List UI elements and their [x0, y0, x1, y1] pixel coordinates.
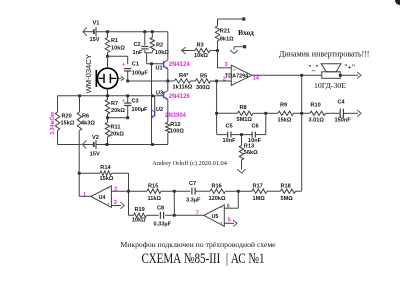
op-amp U5 — [204, 205, 224, 227]
wire r15-c7 — [161, 190, 190, 192]
svg-text:C3: C3 — [132, 99, 139, 105]
resistor R15 11k — [147, 183, 162, 202]
svg-text:Andrey Orloff (c) 2020.01.04: Andrey Orloff (c) 2020.01.04 — [152, 160, 227, 167]
svg-text:TDA7294: TDA7294 — [225, 73, 248, 79]
svg-text:R4*: R4* — [179, 73, 189, 79]
wire r10-c4 — [326, 112, 341, 114]
label 3.34mOm — [50, 112, 56, 135]
svg-text:R17: R17 — [253, 184, 263, 190]
svg-text:"+": "+" — [344, 65, 356, 72]
svg-text:1nF: 1nF — [133, 50, 144, 56]
svg-text:20kΩ: 20kΩ — [110, 132, 124, 138]
wire R14 down — [128, 173, 130, 191]
capacitor C3 100uF — [122, 96, 148, 118]
svg-text:150nF: 150nF — [335, 117, 352, 123]
resistor R10 3.01 — [309, 103, 326, 124]
svg-text:+: + — [220, 221, 223, 226]
svg-text:5M1Ω: 5M1Ω — [237, 117, 253, 123]
resistor R5 300 — [196, 74, 211, 92]
wire output — [252, 74, 322, 76]
node R6 top — [78, 94, 81, 97]
capacitor C2 1nF — [133, 32, 149, 56]
resistor R14 15k — [79, 165, 128, 182]
svg-text:2: 2 — [223, 77, 226, 83]
svg-text:100Ω: 100Ω — [170, 128, 184, 134]
node R2 top — [151, 30, 154, 33]
svg-text:C5: C5 — [226, 123, 233, 129]
svg-text:3.34мОм: 3.34мОм — [50, 112, 56, 135]
svg-text:R7: R7 — [111, 101, 118, 107]
svg-text:U3: U3 — [156, 90, 163, 96]
ground input — [230, 45, 246, 54]
svg-text:15kΩ: 15kΩ — [61, 121, 75, 127]
pin 2 label U4 — [114, 187, 117, 193]
svg-text:6: 6 — [227, 204, 230, 210]
wire r18 corner — [296, 190, 302, 192]
svg-text:R13: R13 — [244, 143, 254, 149]
wire c7-r16 — [195, 190, 210, 192]
wire r17-r18 — [267, 190, 281, 192]
svg-text:WM-034CY: WM-034CY — [84, 54, 93, 93]
caption schema — [142, 251, 265, 267]
node C5-C6 — [240, 133, 243, 136]
svg-text:120kΩ: 120kΩ — [209, 196, 226, 202]
pin 6 label — [227, 204, 230, 210]
node speaker right — [339, 74, 342, 77]
svg-text:10kΩ: 10kΩ — [132, 218, 146, 224]
node R11 bottom — [106, 143, 109, 146]
label dynamik — [279, 49, 369, 58]
caption mic — [120, 240, 276, 249]
svg-text:R19: R19 — [135, 207, 145, 213]
svg-text:1: 1 — [83, 192, 86, 198]
node C2 top — [143, 30, 146, 33]
capacitor C7 3.3uF — [186, 181, 201, 204]
svg-text:100µF: 100µF — [132, 107, 149, 113]
svg-text:R2: R2 — [156, 43, 163, 49]
wire U5 pin6 — [224, 191, 238, 208]
svg-text:3.3µF: 3.3µF — [186, 198, 201, 204]
node rail bottom — [151, 143, 154, 146]
wire bottom rail left — [58, 144, 82, 146]
wire U3 base stub — [154, 96, 156, 110]
wire mid line y81 — [128, 80, 232, 82]
node r15 c8 — [173, 190, 176, 193]
wire r9-r10 — [294, 112, 311, 114]
label 10GD-30E — [314, 81, 346, 90]
svg-text:+: + — [233, 68, 236, 73]
node loop left — [215, 112, 218, 115]
svg-text:300Ω: 300Ω — [196, 85, 210, 91]
label author — [152, 160, 227, 167]
node speaker left — [300, 74, 303, 77]
wire U3-R12 — [167, 99, 169, 122]
svg-text:C8: C8 — [157, 206, 164, 212]
capacitor C5 10nF — [223, 123, 237, 143]
wire top rail — [96, 31, 168, 33]
capacitor C4 150nF — [335, 100, 352, 124]
svg-text:10kΩ: 10kΩ — [111, 46, 125, 52]
label plus — [344, 65, 356, 72]
wire to pin3 — [218, 51, 232, 68]
label WM-034CY — [84, 54, 93, 93]
wire R6 down rail — [78, 131, 80, 197]
svg-text:15kΩ: 15kΩ — [278, 117, 292, 123]
wire to U1 base — [147, 53, 164, 64]
svg-text:Вход: Вход — [238, 28, 254, 37]
pin 1 label — [83, 192, 86, 198]
resistor R3 10k — [182, 43, 218, 60]
svg-text:20kΩ: 20kΩ — [111, 108, 125, 114]
svg-text:СХЕМА №85-III | АС №1: СХЕМА №85-III | АС №1 — [142, 251, 265, 267]
speaker 10GD-30E — [321, 64, 341, 79]
microphone WM-034CY — [96, 68, 118, 89]
svg-text:R16: R16 — [212, 183, 222, 189]
node rail cross — [151, 94, 154, 97]
resistor R11 20k — [105, 118, 124, 145]
wire r8 row — [217, 112, 266, 114]
svg-text:R8: R8 — [240, 105, 247, 111]
wire c4 out — [343, 110, 361, 116]
svg-text:2N4126: 2N4126 — [169, 94, 191, 100]
mic output arrow — [118, 76, 124, 81]
node pin2 U4 — [127, 190, 130, 193]
battery V2 15V — [83, 135, 101, 157]
resistor R21 9k1 — [215, 19, 234, 51]
svg-text:0.33µF: 0.33µF — [154, 222, 172, 228]
node V1-R1 — [106, 30, 109, 33]
svg-text:14: 14 — [253, 75, 260, 81]
wire r8row-r9 — [266, 112, 278, 114]
resistor R7 20k — [105, 96, 125, 118]
node R21-R3 — [216, 49, 219, 52]
op-amp TDA7294 — [225, 65, 252, 85]
capacitor C8 0.33uF — [154, 206, 172, 228]
resistor R13 56k — [239, 135, 258, 170]
svg-text:100µF: 100µF — [132, 71, 149, 77]
svg-text:3: 3 — [225, 62, 228, 68]
svg-text:+: + — [122, 62, 125, 68]
wire c8 column — [128, 191, 130, 215]
transistor U1 2N4124 — [156, 60, 191, 72]
svg-text:10kΩ: 10kΩ — [194, 53, 208, 59]
svg-text:R9: R9 — [280, 103, 287, 109]
svg-text:1k116Ω: 1k116Ω — [173, 85, 193, 91]
resistor R12 100 — [166, 122, 185, 144]
svg-text:U4: U4 — [99, 195, 106, 201]
resistor R1 10k — [105, 32, 125, 57]
node inv input — [215, 80, 218, 83]
capacitor C6 10nF — [248, 123, 262, 143]
resistor R17 1M — [252, 184, 267, 202]
svg-text:R11: R11 — [111, 125, 121, 131]
wire mic bottom — [107, 89, 109, 96]
svg-text:R12: R12 — [170, 122, 180, 128]
svg-text:15kΩ: 15kΩ — [100, 176, 114, 182]
svg-text:"_": "_" — [308, 65, 319, 72]
wire U4 pin3 arrow — [111, 202, 124, 208]
svg-text:C4: C4 — [338, 100, 346, 106]
wire collector rail top — [167, 32, 169, 61]
label minus — [308, 65, 319, 72]
resistor R9 15k — [278, 103, 294, 124]
wire U1-U3 — [167, 69, 169, 91]
pin 5 label — [228, 218, 231, 224]
svg-text:+: + — [122, 98, 125, 104]
svg-text:−: − — [107, 187, 110, 192]
svg-text:4k3Ω: 4k3Ω — [81, 121, 95, 127]
node mic bottom — [106, 94, 109, 97]
label Vhod — [238, 28, 254, 37]
wire output column — [301, 75, 303, 191]
wire R7-C3 bottom — [108, 117, 128, 119]
svg-text:R1: R1 — [111, 38, 118, 44]
pin 3 label — [225, 62, 228, 68]
wire C2-R2 bottom — [145, 52, 153, 54]
resistor R8 5M1 — [237, 105, 253, 123]
wire R1-C1 — [108, 56, 128, 64]
svg-text:R18: R18 — [281, 184, 291, 190]
wire U4 out — [79, 195, 91, 197]
svg-text:2N4124: 2N4124 — [169, 62, 191, 68]
node r15 col bottom — [173, 214, 176, 217]
battery V1 15V — [83, 20, 100, 43]
svg-text:10nF: 10nF — [223, 138, 237, 144]
node fb — [237, 190, 240, 193]
wire r16-r17 — [226, 190, 253, 192]
svg-text:10ГД-30Е: 10ГД-30Е — [314, 81, 346, 90]
svg-text:V1: V1 — [93, 20, 100, 26]
resistor R18 5M — [281, 184, 296, 202]
svg-text:C1: C1 — [132, 62, 139, 68]
svg-text:15V: 15V — [90, 37, 100, 43]
node C1 bottom — [126, 80, 129, 83]
svg-text:R21: R21 — [220, 29, 230, 35]
svg-text:U1: U1 — [156, 66, 163, 72]
wire speaker out — [340, 72, 361, 78]
node R8-R9 — [264, 112, 267, 115]
svg-text:R10: R10 — [311, 103, 321, 109]
node out column — [300, 112, 303, 115]
svg-text:V2: V2 — [92, 135, 99, 141]
svg-text:3.01Ω: 3.01Ω — [309, 117, 325, 123]
resistor R6 4k3 — [77, 96, 95, 131]
svg-text:C6: C6 — [252, 123, 259, 129]
transistor U3 2N4126 — [156, 90, 190, 100]
pin input signal — [242, 17, 245, 20]
wire inv column — [217, 81, 218, 135]
corner mark — [395, 0, 400, 5]
capacitor C1 100uF — [122, 62, 148, 82]
wire input top — [218, 18, 244, 20]
pin 3 label U4 — [114, 200, 117, 206]
op-amp U4 — [91, 186, 112, 208]
node R1 bottom — [106, 55, 109, 58]
node R7C3 — [106, 116, 129, 119]
svg-text:U2: U2 — [156, 107, 163, 113]
resistor R4 1k116 — [173, 73, 193, 90]
wire mic rail — [58, 95, 164, 97]
node R14 left — [78, 172, 81, 175]
svg-text:R6: R6 — [82, 114, 89, 120]
wire c5 row — [218, 134, 266, 136]
wire base rail — [151, 64, 153, 145]
resistor R20 15k — [55, 96, 75, 145]
svg-text:R5: R5 — [200, 74, 207, 80]
svg-text:7: 7 — [196, 211, 199, 217]
svg-text:R14: R14 — [100, 165, 111, 171]
svg-text:Динамик инвертировать!!!: Динамик инвертировать!!! — [279, 49, 369, 58]
resistor R16 120k — [209, 183, 226, 202]
transistor U2 2N3904 — [151, 107, 187, 119]
svg-text:C7: C7 — [189, 181, 196, 187]
svg-text:+: + — [107, 202, 110, 207]
svg-text:5MΩ: 5MΩ — [281, 196, 294, 202]
pin 7 label — [196, 211, 199, 217]
node C3 top — [126, 94, 129, 97]
svg-text:11kΩ: 11kΩ — [148, 196, 162, 202]
pin 2 label — [223, 77, 226, 83]
svg-text:−: − — [233, 79, 236, 84]
svg-text:C2: C2 — [134, 42, 141, 48]
wire U5 pin5 arrow — [224, 220, 237, 226]
wire r15 col — [173, 191, 175, 215]
resistor R2 10k — [150, 32, 169, 56]
pin 14 label — [253, 75, 260, 81]
svg-text:15V: 15V — [90, 152, 100, 158]
ground R13 — [237, 169, 245, 173]
svg-text:1MΩ: 1MΩ — [253, 196, 266, 202]
wire mic top — [107, 56, 109, 68]
wire loop right — [265, 113, 267, 134]
svg-text:R3: R3 — [197, 43, 204, 49]
svg-text:10kΩ: 10kΩ — [155, 50, 169, 56]
wire bottom rail — [96, 144, 168, 146]
svg-text:Микрофон подключен по трёхпров: Микрофон подключен по трёхпроводной схем… — [120, 240, 276, 249]
wire U4 pin2 row — [111, 190, 147, 192]
svg-text:5: 5 — [228, 218, 231, 224]
wire c8-u5 — [165, 214, 204, 216]
node mid-rail — [166, 80, 169, 83]
svg-text:U5: U5 — [212, 214, 219, 220]
resistor R19 10k — [129, 207, 159, 223]
svg-text:R20: R20 — [62, 114, 72, 120]
node base rail — [150, 62, 153, 65]
svg-text:56kΩ: 56kΩ — [244, 150, 258, 156]
svg-text:−: − — [220, 206, 223, 211]
svg-text:9k1Ω: 9k1Ω — [220, 37, 234, 43]
svg-text:R15: R15 — [148, 183, 158, 189]
